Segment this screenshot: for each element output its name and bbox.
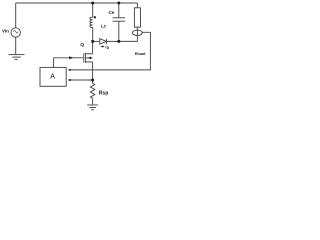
svg-text:A: A	[50, 73, 55, 80]
svg-text:Q: Q	[80, 42, 84, 48]
svg-text:Vin: Vin	[2, 29, 9, 34]
svg-text:Lc: Lc	[101, 24, 107, 29]
svg-text:Rsp: Rsp	[99, 90, 108, 96]
svg-text:Rload: Rload	[135, 52, 146, 56]
svg-text:Ce: Ce	[109, 10, 115, 15]
svg-text:D: D	[107, 46, 110, 50]
